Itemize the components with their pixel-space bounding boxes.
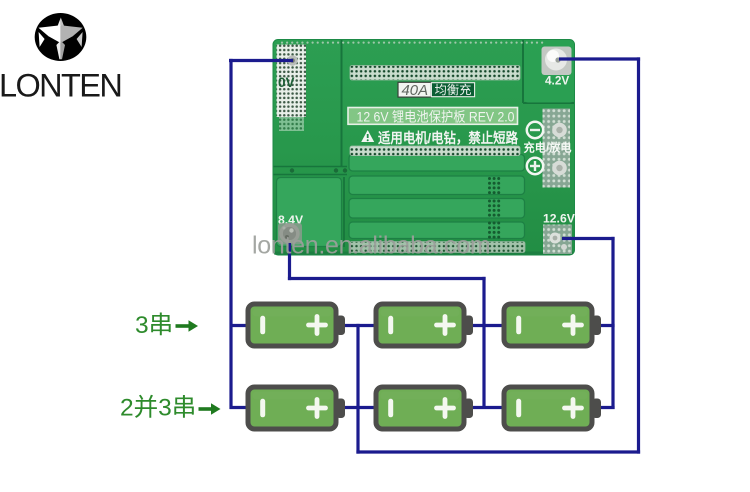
svg-text:40A: 40A	[402, 83, 429, 99]
svg-text:LONTEN: LONTEN	[0, 68, 121, 104]
PCB bottom solder strip	[350, 242, 525, 253]
pad 4.2V	[542, 47, 572, 76]
PCB routing slot 4.2V corner	[523, 40, 574, 103]
label 4.2V	[545, 74, 569, 88]
svg-text:充电/放电: 充电/放电	[524, 141, 572, 155]
wire row2 cell2+ to cell3-	[470, 406, 506, 409]
svg-text:均衡充: 均衡充	[435, 83, 472, 97]
label 0V	[278, 75, 295, 90]
cell BT5 (row2)	[376, 387, 473, 429]
silkscreen warning triangle	[361, 130, 374, 142]
svg-text:3串: 3串	[135, 311, 173, 339]
svg-text:12 6V 锂电池保护板 REV 2.0: 12 6V 锂电池保护板 REV 2.0	[357, 109, 515, 124]
svg-text:4.2V: 4.2V	[545, 74, 569, 88]
wire row2 cell1+ to cell2-	[342, 406, 378, 409]
wire bottom 4.2V return	[356, 450, 640, 453]
PCB routing slot left vertical	[341, 40, 343, 166]
label 8.4V silkscreen	[278, 213, 304, 227]
wire row2 cell3+ to 12.6V bus	[597, 406, 615, 409]
silkscreen warning line	[378, 130, 519, 147]
wire 4.2V horizontal from pad	[559, 57, 640, 60]
cell BT4 (row2)	[248, 387, 345, 429]
wire 0V left vertical bus	[229, 59, 232, 409]
Lonten logo origami bird	[39, 18, 83, 60]
pad block P- charge holes column	[543, 109, 571, 188]
cell BT6 (row2)	[504, 387, 601, 429]
svg-text:2并3串: 2并3串	[120, 394, 196, 422]
svg-text:适用电机/电钻，禁止短路: 适用电机/电钻，禁止短路	[378, 130, 519, 147]
svg-text:0V: 0V	[278, 75, 295, 90]
cell BT2 (row1)	[376, 304, 473, 346]
PCB board U1 (3S 40A BMS)	[273, 40, 575, 256]
PCB left lower panel	[277, 177, 345, 247]
wire 0V horizontal from B- pad	[229, 59, 293, 62]
svg-text:lonten.en.alibaba.com: lonten.en.alibaba.com	[252, 232, 490, 260]
wire 0V stub to row1 cell1 minus	[230, 324, 251, 327]
label 2-parallel-3-series with arrow	[120, 394, 221, 422]
PCB balance copper strips	[349, 155, 525, 239]
Lonten logo circle	[35, 13, 87, 61]
PCB top edge via row	[281, 42, 543, 44]
PCB mid solder strip	[350, 146, 520, 156]
silkscreen balance-charge box	[431, 83, 474, 97]
wire 0V stub to row2 cell1 minus	[230, 406, 251, 409]
wire row1 cell1+ to cell2-	[342, 324, 378, 327]
wire 8.4V vertical drop from pad	[288, 243, 291, 280]
pad B- 0V hole grid	[277, 45, 307, 132]
wire 4.2V outer right vertical	[637, 57, 640, 453]
cell BT1 (row1)	[248, 304, 345, 346]
cell BT3 (row1)	[504, 304, 601, 346]
pad block P+ 12.6V holes	[543, 225, 572, 255]
PCB top solder strip	[350, 66, 520, 81]
wire row1 cell3+ to 12.6V bus	[597, 324, 615, 327]
label 3-series with arrow	[135, 311, 198, 339]
pad 8.4V solder blob	[278, 223, 302, 245]
wire row1 cell2+ to cell3-	[470, 324, 506, 327]
wire 8.4V tap vertical between cell2 and cell3	[482, 277, 485, 409]
wire 4.2V tap vertical between cell1 and cell2	[356, 324, 359, 454]
svg-text:12.6V: 12.6V	[543, 212, 576, 226]
PCB routing slot left horizontal pair	[274, 167, 348, 175]
silkscreen title band 12.6V	[348, 108, 518, 125]
label 12.6V silkscreen	[543, 212, 576, 226]
wire 12.6V horizontal from P+ pad	[562, 237, 615, 240]
pad B- 0V solder ring	[287, 55, 297, 65]
label charge/discharge	[524, 141, 572, 155]
symbol minus circle	[527, 122, 543, 138]
wire 12.6V vertical bus	[611, 237, 614, 409]
watermark alibaba	[252, 232, 490, 260]
wire 8.4V horizontal	[288, 277, 486, 280]
symbol plus circle	[527, 158, 543, 174]
silkscreen 40A box	[398, 82, 431, 99]
